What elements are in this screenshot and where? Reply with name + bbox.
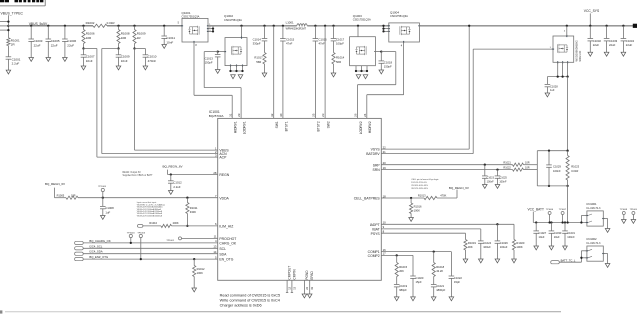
capacitor C1006 22uF <box>64 25 66 27</box>
ground <box>169 191 174 195</box>
capacitor C1001 2.2uF <box>7 46 9 57</box>
svg-text:CMPOUT: CMPOUT <box>288 266 292 280</box>
ground <box>479 259 484 263</box>
node <box>133 47 135 49</box>
svg-text:Charger address is 0xD6: Charger address is 0xD6 <box>220 304 262 308</box>
svg-text:BQ25703A: BQ25703A <box>209 114 224 118</box>
wire: BQ_CHARG_OK <box>83 242 218 244</box>
capacitor C1020 15pF <box>412 255 414 276</box>
svg-text:COMP2: COMP2 <box>368 254 380 258</box>
svg-text:PROCHOT: PROCHOT <box>219 237 236 241</box>
svg-text:100K: 100K <box>414 209 420 213</box>
wire: BATT_TC_L <box>559 261 581 263</box>
svg-text:30: 30 <box>279 113 283 117</box>
node: connector junctions <box>7 20 9 22</box>
ground <box>394 297 399 301</box>
svg-text:R1020: R1020 <box>516 241 524 245</box>
capacitor C1018 150pF <box>374 51 381 53</box>
transistor Q1005 WSD2066DN56G <box>553 36 574 62</box>
capacitor C1017 100pF <box>332 25 334 27</box>
svg-text:0.01R: 0.01R <box>571 169 578 173</box>
capacitor C1010 470nF <box>135 48 146 50</box>
svg-text:31: 31 <box>228 113 232 117</box>
svg-text:C1005: C1005 <box>51 39 60 43</box>
capacitor C1032 22uF <box>589 25 591 27</box>
wire: Q1004 drain stubs <box>384 28 389 30</box>
svg-text:R1006: R1006 <box>86 32 95 36</box>
ground <box>215 70 220 74</box>
capacitor C1011 10nF <box>163 25 165 27</box>
wire: SW2 to IC pin 23 <box>324 25 326 27</box>
wire: ACP sense <box>84 48 97 50</box>
svg-text:C1023: C1023 <box>487 177 495 180</box>
wire: Q1003 source to ground <box>355 66 357 71</box>
ground <box>588 52 593 56</box>
wire: bus to Q1001 <box>107 25 182 27</box>
svg-text:56R: 56R <box>256 60 261 64</box>
svg-text:SDA: SDA <box>219 252 227 256</box>
capacitor C1023 100nF <box>484 164 486 166</box>
svg-text:56R: 56R <box>336 60 341 64</box>
wire: HIDRV1 gate drive <box>193 42 195 95</box>
svg-text:C1021: C1021 <box>436 284 444 288</box>
svg-text:VILIM=4.0V 4000mA/2000mA: VILIM=4.0V 4000mA/2000mA <box>137 214 163 217</box>
capacitor C1033 22uF <box>605 25 607 27</box>
svg-text:C1024: C1024 <box>483 241 491 245</box>
svg-text:10uF: 10uF <box>554 235 560 239</box>
svg-text:10R: 10R <box>86 36 92 40</box>
svg-text:BTST2: BTST2 <box>317 121 321 131</box>
wire: CN1001 pin 1 <box>581 215 587 217</box>
svg-text:CSD17551Q3A: CSD17551Q3A <box>182 15 200 19</box>
svg-text:10uF: 10uF <box>539 235 545 239</box>
svg-text:24: 24 <box>363 113 367 117</box>
title block frame <box>0 5 45 7</box>
svg-text:C1020: C1020 <box>416 276 424 280</box>
svg-text:WSD2066DN56G: WSD2066DN56G <box>574 40 578 61</box>
svg-text:100uF: 100uF <box>500 245 508 249</box>
svg-text:1800pF: 1800pF <box>436 288 445 292</box>
wire: VCC_BATT drop <box>567 77 569 151</box>
svg-text:EPAD: EPAD <box>310 270 314 279</box>
svg-text:CL-018-7b-3: CL-018-7b-3 <box>586 207 601 210</box>
wire: sense rail left <box>536 151 538 186</box>
wire: IADPT <box>381 223 514 225</box>
svg-text:29: 29 <box>237 113 241 117</box>
ground <box>302 294 307 298</box>
svg-text:VSYS: VSYS <box>371 148 381 152</box>
resistor R1021 10R <box>513 163 524 166</box>
svg-text:100K: 100K <box>197 271 203 275</box>
wire: CMPIN stub <box>291 280 293 292</box>
resistor R1014 56R <box>333 41 335 53</box>
ground <box>512 259 517 263</box>
svg-text:PSYS: PSYS <box>371 232 381 236</box>
ground <box>46 58 51 62</box>
capacitor C1005 22uF <box>47 25 49 27</box>
svg-text:SRP: SRP <box>373 163 381 167</box>
wire: SRN <box>381 169 512 171</box>
resistor R1020 100K <box>513 224 515 239</box>
svg-text:TP1001: TP1001 <box>166 240 174 242</box>
svg-text:R1016: R1016 <box>414 204 422 208</box>
wire: LODRV1 gate drive <box>204 51 218 53</box>
svg-text:R1008: R1008 <box>121 32 130 36</box>
ground <box>431 297 436 301</box>
svg-text:CELL pin to lowest Vsys logic:: CELL pin to lowest Vsys logic: <box>411 178 439 181</box>
ground <box>101 216 106 220</box>
svg-text:C1009: C1009 <box>121 55 130 59</box>
wire: PROCHOT <box>182 237 218 239</box>
svg-text:Read command of CW2015 is 0xC5: Read command of CW2015 is 0xC5 <box>220 294 281 298</box>
svg-text:330K: 330K <box>190 210 196 214</box>
svg-text:R1023: R1023 <box>571 165 579 169</box>
svg-text:R1005: R1005 <box>57 194 65 198</box>
svg-text:43.2K: 43.2K <box>436 269 443 273</box>
ground <box>534 246 539 250</box>
resistor R1019 30K <box>465 233 467 239</box>
svg-text:Supplied from VBUS or BATT: Supplied from VBUS or BATT <box>123 174 154 177</box>
wire: VSYS <box>381 148 469 150</box>
svg-text:C1010: C1010 <box>148 55 157 59</box>
ground <box>483 185 488 189</box>
svg-text:47nF: 47nF <box>319 42 326 46</box>
capacitor C1015 47nF (BTST1) <box>282 25 284 27</box>
svg-text:I2C4_SDA: I2C4_SDA <box>89 250 102 254</box>
ground <box>162 45 167 49</box>
svg-text:EN_OTG: EN_OTG <box>219 258 233 262</box>
wire: Q1002 source to ground <box>230 66 232 71</box>
svg-text:Q1002: Q1002 <box>224 14 233 18</box>
wire: VCC_BATT rail <box>533 222 587 224</box>
svg-text:C1029: C1029 <box>553 165 561 169</box>
node <box>186 225 188 227</box>
ground <box>63 58 68 62</box>
svg-text:SCL: SCL <box>219 247 226 251</box>
wire: VDDA <box>78 197 218 199</box>
svg-text:ACP: ACP <box>219 156 227 160</box>
svg-text:10R: 10R <box>121 36 127 40</box>
node I2C4_SCL port <box>75 247 84 250</box>
svg-text:R1009: R1009 <box>137 32 146 36</box>
svg-text:LODRV2: LODRV2 <box>359 121 363 134</box>
wire: CN1001 pin 3 to ground <box>603 218 607 220</box>
svg-text:10nF: 10nF <box>86 59 93 63</box>
wire: Q1001 drain stubs <box>208 28 213 30</box>
resistor R1016 330K <box>410 198 412 203</box>
wire: ACN sense <box>102 48 119 50</box>
wire: VCC_SYS bus <box>419 25 633 27</box>
svg-text:C1006: C1006 <box>67 39 76 43</box>
ground <box>622 220 627 224</box>
svg-text:TP1003: TP1003 <box>98 186 106 188</box>
svg-text:Q1004: Q1004 <box>390 10 399 14</box>
capacitor C1022 33pF <box>450 252 452 276</box>
svg-text:C1022: C1022 <box>454 276 462 280</box>
svg-text:R1013: R1013 <box>418 194 426 198</box>
svg-text:1uF: 1uF <box>105 210 110 214</box>
wire: I2C4_SDA <box>83 253 218 255</box>
svg-text:CN1001: CN1001 <box>586 202 597 206</box>
wire: I2C4_SCL <box>83 247 218 249</box>
wire: CELL_BATPRES <box>381 197 424 199</box>
wire: COMP1 <box>381 251 451 253</box>
wire: sense rail bottom <box>537 185 567 187</box>
capacitor C1014 330pF <box>263 25 265 27</box>
capacitor C1029 100nF <box>548 151 550 165</box>
capacitor C1013 150pF <box>218 51 225 53</box>
svg-text:BQ_REGN_6V: BQ_REGN_6V <box>45 182 65 186</box>
capacitor C1026 100uF <box>496 224 498 241</box>
svg-text:25: 25 <box>312 113 316 117</box>
resistor R1018 43.2K <box>433 252 435 263</box>
svg-text:23: 23 <box>321 113 325 117</box>
svg-text:2.2uF: 2.2uF <box>12 62 20 66</box>
resistor R1005 10R <box>66 196 78 199</box>
svg-text:R1022: R1022 <box>503 167 511 170</box>
svg-text:PGND: PGND <box>305 270 309 280</box>
wire: EPAD stub <box>309 280 311 294</box>
svg-text:150pF: 150pF <box>384 65 392 69</box>
svg-text:C1019: C1019 <box>399 284 407 288</box>
svg-text:BATT_TC_L: BATT_TC_L <box>561 258 576 262</box>
svg-text:CSD17551Q3A: CSD17551Q3A <box>353 18 371 22</box>
ground <box>29 58 34 62</box>
wire: Q1005 source rail <box>557 62 559 76</box>
svg-text:15pF: 15pF <box>416 280 422 284</box>
svg-text:200K: 200K <box>173 221 179 225</box>
resistor R1022 10R <box>513 168 524 171</box>
svg-text:SW2: SW2 <box>326 121 330 128</box>
svg-text:BQ_REGN_6V: BQ_REGN_6V <box>163 164 183 168</box>
capacitor C1024 100uF <box>480 229 482 241</box>
svg-text:BQ_REGN_6V: BQ_REGN_6V <box>449 186 469 190</box>
wire: COMP2 <box>381 254 413 256</box>
resistor R1013 470K <box>424 196 437 199</box>
resistor R1001 2R <box>7 38 10 46</box>
resistor R1010 200K <box>161 224 172 227</box>
svg-text:VCC_SYS: VCC_SYS <box>584 9 600 13</box>
capacitor C1012 2.2uF <box>170 173 172 175</box>
svg-text:9002-CD: 9002-CD <box>578 51 582 62</box>
svg-text:C1030: C1030 <box>554 231 562 235</box>
svg-text:VBUS_TYPEC: VBUS_TYPEC <box>1 11 24 15</box>
wire: SW1 bus <box>208 25 297 27</box>
resistor R1017 56R <box>264 41 266 53</box>
ground <box>6 70 11 74</box>
wire: PGND stub <box>303 280 305 294</box>
capacitor C1003 22uF <box>30 25 32 27</box>
svg-text:HIDRV1: HIDRV1 <box>234 121 238 133</box>
capacitor C1019 680pF <box>394 284 400 286</box>
svg-text:R1010: R1010 <box>149 221 157 225</box>
wire: ILIM_HIZ <box>137 225 143 228</box>
capacitor C1025 100nF <box>496 168 498 170</box>
ground <box>463 259 468 263</box>
svg-text:20K: 20K <box>399 269 404 273</box>
svg-text:680pF: 680pF <box>399 288 407 292</box>
svg-text:32: 32 <box>270 113 274 117</box>
svg-text:47nF: 47nF <box>286 42 293 46</box>
node <box>117 47 119 49</box>
ground <box>605 229 610 233</box>
svg-text:C1025: C1025 <box>499 177 507 180</box>
svg-text:BATDRV: BATDRV <box>366 152 380 156</box>
svg-text:Q1001: Q1001 <box>182 11 191 15</box>
svg-text:100nF: 100nF <box>567 235 575 239</box>
ground <box>549 246 554 250</box>
svg-text:2.2uF: 2.2uF <box>173 185 180 189</box>
svg-text:470K: 470K <box>440 194 446 198</box>
ground <box>604 52 609 56</box>
svg-text:330pF: 330pF <box>253 42 261 46</box>
resistor R1015 20K <box>396 255 398 262</box>
svg-text:CMPIN: CMPIN <box>292 269 296 280</box>
svg-text:C1026: C1026 <box>500 241 508 245</box>
svg-text:100pF: 100pF <box>336 42 344 46</box>
svg-text:CN1002: CN1002 <box>586 237 597 241</box>
svg-text:CSD17551Q3A: CSD17551Q3A <box>390 14 408 18</box>
ground <box>563 246 568 250</box>
svg-text:C1003: C1003 <box>34 39 43 43</box>
svg-text:22uF: 22uF <box>593 43 600 47</box>
ground <box>545 93 550 97</box>
wire: BQ_ENZ_OTG <box>83 258 218 260</box>
svg-text:30K: 30K <box>468 245 473 249</box>
svg-text:TP1006: TP1006 <box>546 209 554 211</box>
ground <box>262 73 267 77</box>
svg-text:22uF: 22uF <box>34 43 41 47</box>
wire: REGN <box>167 170 169 175</box>
svg-text:CSD17551Q3A: CSD17551Q3A <box>224 18 242 22</box>
wire: sense rail top <box>537 150 567 152</box>
ground <box>411 297 416 301</box>
svg-text:Write command of CW2015 is 0xC: Write command of CW2015 is 0xC4 <box>220 299 280 303</box>
node BQ_ENZ_OTG port <box>75 258 84 261</box>
svg-text:3S 52% 58% 65%: 3S 52% 58% 65% <box>411 188 428 190</box>
svg-text:SW1: SW1 <box>275 121 279 128</box>
ground <box>495 259 500 263</box>
svg-text:10nF: 10nF <box>166 40 173 44</box>
capacitor C1007 10nF <box>83 49 85 55</box>
resistor R1023 0.01R <box>567 151 569 156</box>
ground <box>605 264 610 268</box>
svg-text:BQ_ENZ_OTG: BQ_ENZ_OTG <box>89 255 108 259</box>
resistor R1008 10R <box>117 25 119 27</box>
node BATT_TC_L port <box>551 261 560 264</box>
node <box>82 47 84 49</box>
svg-text:BTST1: BTST1 <box>284 121 288 131</box>
wire: SW1 to IC pin 32 <box>273 25 275 27</box>
ground <box>379 70 384 74</box>
ground <box>81 66 86 70</box>
svg-text:2S 30% 40% 45%: 2S 30% 40% 45% <box>411 185 428 187</box>
svg-text:26: 26 <box>354 113 358 117</box>
svg-text:22uF: 22uF <box>626 43 633 47</box>
svg-text:IADPT: IADPT <box>370 223 380 227</box>
node: bus end <box>633 24 637 28</box>
capacitor C1016 47nF (BTST2) <box>314 25 316 27</box>
resistor R1002 0.01R (sense) <box>93 24 107 27</box>
svg-text:C1011: C1011 <box>166 36 175 40</box>
ground <box>238 75 243 79</box>
ground <box>631 220 636 224</box>
svg-text:22uF: 22uF <box>51 43 58 47</box>
svg-text:R1015: R1015 <box>399 265 407 269</box>
wire: IBAT <box>381 228 481 230</box>
resistor R1006 10R <box>82 25 84 27</box>
svg-text:TP1008: TP1008 <box>620 209 628 211</box>
svg-text:470nF: 470nF <box>148 59 157 63</box>
svg-text:R1021: R1021 <box>503 162 511 165</box>
svg-text:R1018: R1018 <box>436 265 444 269</box>
svg-text:L1001: L1001 <box>286 20 294 24</box>
capacitor C1021 1800pF <box>431 284 437 286</box>
capacitor C1008 1uF <box>102 198 104 207</box>
resistor R1009 1R <box>133 25 135 27</box>
ground <box>307 294 312 298</box>
svg-text:22uF: 22uF <box>609 43 616 47</box>
resistor R1012 100K <box>193 258 195 260</box>
ground <box>231 75 236 79</box>
wire: SRP <box>381 164 512 166</box>
svg-text:100uF: 100uF <box>483 245 491 249</box>
capacitor C1028 <box>546 77 548 85</box>
svg-text:0.01R: 0.01R <box>107 21 116 25</box>
svg-text:VDDA: VDDA <box>219 196 229 200</box>
wire: HIDRV2 gate drive <box>403 42 405 95</box>
svg-text:1uF: 1uF <box>550 88 555 92</box>
node <box>102 197 104 199</box>
svg-text:Q1003: Q1003 <box>353 14 362 18</box>
svg-text:CELL_BATPRES: CELL_BATPRES <box>354 197 381 201</box>
svg-text:C1031: C1031 <box>567 231 575 235</box>
capacitor C1030 10uF <box>550 221 552 223</box>
svg-text:R1019: R1019 <box>468 241 476 245</box>
wire: BATDRV <box>381 153 473 155</box>
svg-text:SRN: SRN <box>373 168 381 172</box>
svg-text:ILIM_HIZ: ILIM_HIZ <box>219 225 233 229</box>
svg-text:10R: 10R <box>525 162 530 165</box>
svg-text:VCC_BATT: VCC_BATT <box>528 208 544 212</box>
svg-text:TP1009: TP1009 <box>630 209 638 211</box>
ground <box>621 52 626 56</box>
svg-text:1S 10% 25% 0%: 1S 10% 25% 0% <box>411 182 427 184</box>
svg-text:R1002: R1002 <box>86 21 95 25</box>
wire: PSYS <box>381 232 465 234</box>
svg-text:I2C4_SCL: I2C4_SCL <box>89 244 102 248</box>
svg-text:33pF: 33pF <box>454 280 460 284</box>
ground <box>363 75 368 79</box>
node I2C4_SDA port <box>75 252 84 255</box>
wire: connector stub vertical <box>7 15 9 38</box>
capacitor C1031 100nF <box>564 221 566 223</box>
svg-text:WPN4020H2R2MT: WPN4020H2R2MT <box>286 27 307 30</box>
capacitor C1009 10nF <box>118 49 120 55</box>
resistor R1011 330K <box>186 197 188 199</box>
wire: LODRV2 gate drive <box>381 51 396 53</box>
svg-text:HIDRV2: HIDRV2 <box>368 121 372 133</box>
svg-text:10nF: 10nF <box>121 59 128 63</box>
svg-text:150pF: 150pF <box>205 61 213 65</box>
svg-text:C1027: C1027 <box>539 231 547 235</box>
ground <box>116 66 121 70</box>
title text (cropped) <box>0 0 4 2</box>
svg-text:TP1007: TP1007 <box>559 209 567 211</box>
wire: connector stubs <box>0 21 8 23</box>
node BQ_CHARG_OK port <box>75 241 84 244</box>
svg-text:C1007: C1007 <box>86 55 95 59</box>
